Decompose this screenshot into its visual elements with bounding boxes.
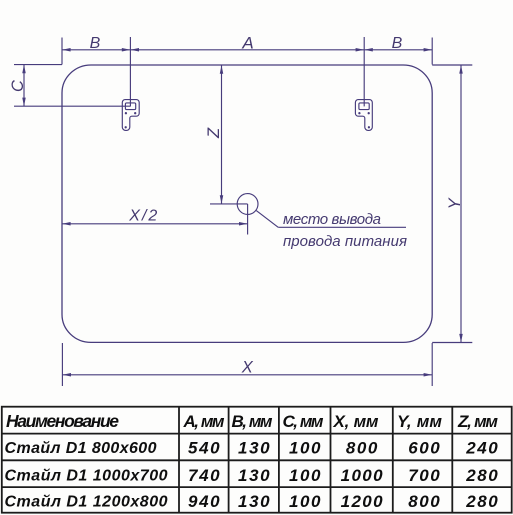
- svg-text:С, мм: С, мм: [283, 412, 324, 431]
- svg-text:X: X: [241, 358, 254, 376]
- svg-text:B: B: [90, 35, 101, 52]
- bracket left slot: [125, 103, 135, 110]
- bracket right (mirrored): [355, 100, 372, 131]
- table outer border: [2, 407, 512, 513]
- svg-text:В, мм: В, мм: [232, 412, 273, 431]
- dimension line B right: [364, 49, 432, 51]
- dimension line Z: [221, 65, 223, 204]
- panel outline: [62, 65, 432, 342]
- svg-text:1000: 1000: [341, 466, 384, 485]
- svg-text:130: 130: [238, 492, 270, 511]
- table column line 3: [278, 407, 280, 513]
- svg-text:B: B: [392, 35, 403, 52]
- arrow A right: [356, 48, 365, 52]
- svg-text:740: 740: [188, 466, 220, 485]
- svg-text:600: 600: [408, 438, 440, 457]
- svg-text:Стайл D1 800х600: Стайл D1 800х600: [5, 440, 157, 457]
- svg-text:C: C: [9, 80, 27, 92]
- svg-text:800: 800: [408, 492, 440, 511]
- arrow C bottom: [22, 98, 26, 107]
- svg-text:280: 280: [465, 466, 498, 485]
- svg-text:130: 130: [238, 466, 270, 485]
- extension line Y top: [432, 64, 472, 66]
- dimension line C: [23, 65, 25, 107]
- dimension line Y: [460, 65, 462, 343]
- extension line C bottom / hanging level: [14, 105, 130, 107]
- svg-text:Z, мм: Z, мм: [457, 412, 498, 431]
- table header row line: [2, 433, 512, 435]
- arrow X left: [62, 373, 71, 377]
- svg-text:А, мм: А, мм: [183, 412, 225, 431]
- svg-text:Стайл D1 1000х700: Стайл D1 1000х700: [5, 468, 168, 485]
- arrow B-left right: [122, 48, 131, 52]
- svg-text:провода питания: провода питания: [283, 233, 407, 250]
- arrow X right: [424, 373, 433, 377]
- extension line right edge (B right): [431, 38, 433, 65]
- table column line 1: [178, 407, 180, 513]
- leader diagonal from circle: [256, 211, 278, 228]
- svg-text:940: 940: [188, 492, 220, 511]
- extension line bracket2 center: [363, 37, 365, 106]
- svg-text:X/2: X/2: [128, 207, 157, 224]
- extension tick at circle center: [210, 203, 248, 205]
- svg-text:800: 800: [346, 438, 378, 457]
- svg-text:место вывода: место вывода: [283, 211, 381, 228]
- svg-text:130: 130: [238, 438, 270, 457]
- extension line Y bottom: [432, 342, 472, 344]
- arrow B-right left: [364, 48, 373, 52]
- dimension line B left: [62, 49, 130, 51]
- svg-text:540: 540: [188, 438, 220, 457]
- table row line 2: [2, 486, 512, 488]
- svg-text:Наименование: Наименование: [6, 411, 119, 431]
- arrow Z top: [220, 65, 224, 74]
- table column line 5: [392, 407, 394, 513]
- svg-text:Z: Z: [205, 127, 223, 139]
- table column line 4: [330, 407, 332, 513]
- arrow X/2 left: [62, 222, 71, 226]
- extension line below circle (X/2): [247, 204, 249, 235]
- svg-text:100: 100: [289, 492, 321, 511]
- svg-text:A: A: [241, 34, 253, 53]
- dimension line X/2: [62, 223, 248, 225]
- svg-text:Y: Y: [446, 197, 464, 209]
- dimension line A: [130, 49, 364, 51]
- svg-text:240: 240: [465, 438, 498, 457]
- svg-text:100: 100: [289, 466, 321, 485]
- arrow B-left left: [62, 48, 71, 52]
- svg-text:Стайл D1 1200х800: Стайл D1 1200х800: [5, 494, 168, 511]
- arrow X/2 right: [239, 222, 248, 226]
- bracket left outline: [122, 100, 139, 131]
- table row line 1: [2, 459, 512, 461]
- table column line 6: [451, 407, 453, 513]
- extension line X right: [431, 343, 433, 386]
- svg-text:100: 100: [289, 438, 321, 457]
- bracket left hole 1: [125, 112, 127, 114]
- svg-text:280: 280: [465, 492, 498, 511]
- svg-text:700: 700: [408, 466, 440, 485]
- svg-text:1200: 1200: [341, 492, 384, 511]
- arrow C top: [22, 65, 26, 74]
- leader shelf: [278, 226, 406, 228]
- cable outlet circle: [237, 194, 258, 215]
- bracket left hole 2: [134, 112, 136, 114]
- extension line left edge (B left): [61, 38, 63, 65]
- arrow Y top: [459, 65, 463, 74]
- bracket left hole 3: [125, 126, 127, 128]
- arrow A left: [130, 48, 139, 52]
- arrow B-right right: [424, 48, 433, 52]
- table column line 2: [228, 407, 230, 513]
- dimension line X: [62, 374, 432, 376]
- arrow Y bottom: [459, 334, 463, 343]
- extension line X left: [61, 343, 63, 386]
- extension line C top: [14, 64, 62, 66]
- arrow Z bottom: [220, 195, 224, 204]
- svg-text:Y, мм: Y, мм: [397, 412, 442, 431]
- extension line bracket1 center: [129, 37, 131, 106]
- svg-text:Х, мм: Х, мм: [333, 412, 379, 431]
